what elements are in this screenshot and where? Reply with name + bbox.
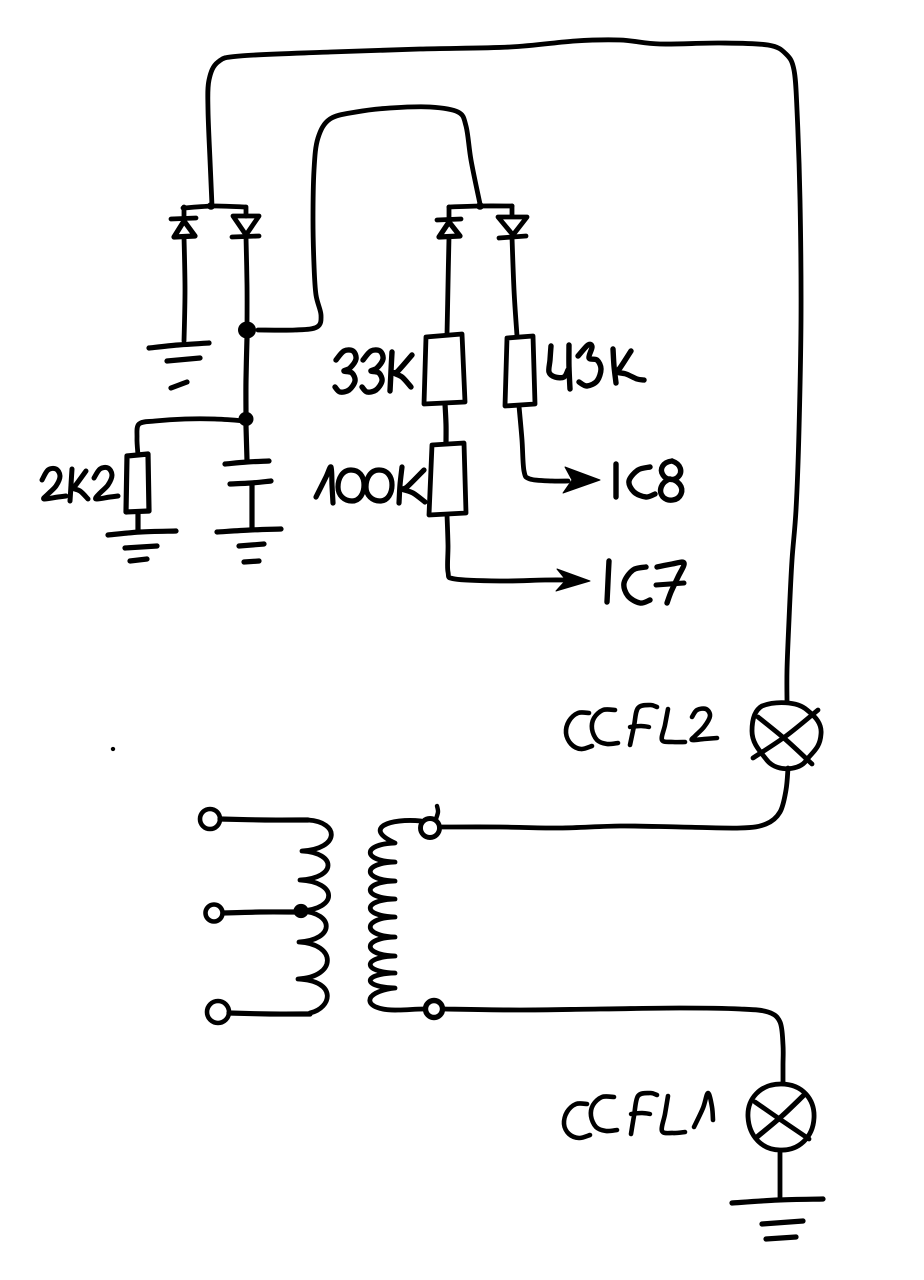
label 33K <box>335 350 412 392</box>
ink speck <box>111 747 115 751</box>
resistor R-33K <box>424 334 465 404</box>
wire (CCFL1 to ground) <box>778 1151 783 1198</box>
diode D4 <box>498 206 527 238</box>
wire (D4 to 43K) <box>512 237 517 336</box>
node J1 <box>238 321 256 338</box>
label IC8 <box>616 461 682 500</box>
transformer primary winding <box>298 820 331 1013</box>
wire W2 (from right diode pair down to node J1) <box>258 107 480 330</box>
label CCFL2 <box>566 705 717 749</box>
label CCFL1 <box>564 1093 713 1138</box>
wire (secondary bottom to CCFL1) <box>444 1008 783 1083</box>
lamp CCFL1 <box>748 1084 814 1150</box>
terminal T1 <box>200 809 220 829</box>
wire (left diode pair top bar) <box>183 202 245 210</box>
ground (below 2K2) <box>108 531 176 561</box>
transformer secondary winding <box>370 820 424 1010</box>
ground (below CCFL1) <box>732 1199 823 1239</box>
wire (J2 left to 2K2) <box>137 419 246 455</box>
resistor R-43K <box>505 336 535 406</box>
lamp CCFL2 <box>752 703 821 769</box>
wire (J1 to J2) <box>246 338 247 414</box>
label 43K <box>549 344 644 389</box>
capacitor C1 <box>225 461 271 484</box>
wire (D3 to 33K) <box>447 237 449 334</box>
resistor R-2K2 <box>126 454 149 512</box>
node J2 <box>239 412 254 426</box>
diode D2 <box>232 207 259 237</box>
wire (T1 to primary) <box>220 819 308 820</box>
wire (CCFL2 to secondary top) <box>441 768 788 828</box>
ground (below capacitor) <box>217 529 281 562</box>
wire (2K2 to ground) <box>135 512 140 531</box>
wire (D1 to ground) <box>184 237 185 341</box>
ground (below D1) <box>149 343 209 388</box>
label IC7 <box>607 561 684 603</box>
wire (100K to IC7 arrow) <box>447 515 573 581</box>
wire (T3 to primary bottom) <box>229 1013 310 1014</box>
terminal T2 <box>206 905 223 922</box>
wire (33K to 100K) <box>445 404 446 443</box>
label 100K <box>316 467 425 503</box>
node JT (center tap) <box>294 904 309 918</box>
terminal S2 <box>426 1001 443 1018</box>
wire (right diode pair top bar) <box>449 202 512 210</box>
terminal T3 <box>207 1001 229 1023</box>
wire (43K to IC8 arrow) <box>519 406 568 481</box>
terminal S1 <box>421 806 440 838</box>
wire (D2 to node J1) <box>246 237 247 328</box>
wire (T2 to center tap) <box>223 912 296 913</box>
label 2K2 <box>42 467 118 501</box>
wire W1 (top rail from left diode pair to CCFL2) <box>208 40 801 701</box>
wire (capacitor to ground) <box>249 485 254 529</box>
diode D1 <box>171 207 196 237</box>
diode D3 <box>437 207 461 237</box>
arrow to IC7 <box>556 569 590 591</box>
arrow to IC8 <box>563 467 600 493</box>
resistor R-100K <box>429 443 466 515</box>
wire (J2 to capacitor) <box>246 426 247 460</box>
